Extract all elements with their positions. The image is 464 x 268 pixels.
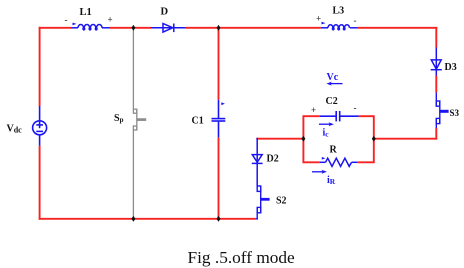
svg-text:iR: iR xyxy=(327,175,336,186)
svg-text:L1: L1 xyxy=(80,7,92,18)
svg-text:+: + xyxy=(311,105,316,115)
L1 current arrow xyxy=(73,23,77,26)
wire left rail upper xyxy=(39,27,41,106)
node junction top Sp xyxy=(131,25,135,31)
node junction bottom C1 xyxy=(217,216,221,222)
wire C1 column top red xyxy=(218,28,220,100)
transistor Sp xyxy=(133,109,146,130)
caption xyxy=(188,248,295,268)
wire top rail left segment xyxy=(39,27,71,29)
wire mid lead right (box to S3) xyxy=(374,138,437,140)
switch Sp gray line upper xyxy=(132,28,134,109)
R current arrow small xyxy=(322,157,326,160)
wire box bottom edge red parts xyxy=(303,161,320,163)
svg-text:ic: ic xyxy=(323,128,330,139)
svg-text:-: - xyxy=(354,16,357,26)
wire box right edge xyxy=(373,115,375,163)
svg-text:Vc: Vc xyxy=(327,72,339,83)
wire box left edge xyxy=(302,115,304,163)
node junction bottom Sp xyxy=(131,216,135,222)
ic arrow xyxy=(319,122,334,126)
wire right column top red xyxy=(435,27,437,48)
wire box top edge red parts xyxy=(303,115,319,117)
capacitor C2 xyxy=(320,111,359,121)
capacitor C1 xyxy=(212,100,226,138)
wire C1 column bottom red xyxy=(218,137,220,219)
svg-text:D2: D2 xyxy=(267,154,279,165)
svg-text:D3: D3 xyxy=(445,62,457,73)
iR arrow xyxy=(312,170,327,174)
svg-text:Vdc: Vdc xyxy=(7,124,23,135)
wire top rail between L1 and D xyxy=(110,27,151,29)
svg-text:S2: S2 xyxy=(276,196,287,207)
svg-text:S3: S3 xyxy=(450,108,460,118)
transistor S3 xyxy=(436,93,448,128)
wire right column red below S3 xyxy=(435,128,437,140)
C1 current arrow xyxy=(221,102,225,105)
svg-text:+: + xyxy=(108,15,113,25)
resistor R xyxy=(320,158,357,166)
svg-text:Sp: Sp xyxy=(114,113,124,124)
wire top rail between D and L3 xyxy=(186,27,321,29)
inductor L3 xyxy=(321,25,358,30)
svg-text:D: D xyxy=(161,7,169,18)
svg-text:-: - xyxy=(354,103,357,113)
svg-text:R: R xyxy=(330,145,338,156)
L3 current arrow xyxy=(322,22,326,25)
svg-text:-: - xyxy=(65,15,68,25)
inductor L1 xyxy=(71,24,110,29)
wire right column red between D3 and S3 xyxy=(435,76,437,93)
node junction top C1 xyxy=(217,25,221,31)
switch Sp gray line lower xyxy=(132,130,134,219)
svg-text:L3: L3 xyxy=(333,6,345,17)
node junction box left xyxy=(301,136,305,142)
wire mid lead left (D2 corner to box) xyxy=(256,138,303,140)
Vc arrow xyxy=(326,82,342,86)
svg-text:+: + xyxy=(316,14,321,24)
transistor S2 xyxy=(256,186,270,220)
diode D2 xyxy=(252,138,263,186)
diode D xyxy=(151,24,186,33)
wire bottom rail xyxy=(39,218,256,220)
source Vdc xyxy=(33,106,47,146)
wire top rail right of L3 xyxy=(358,27,438,29)
wire left rail lower xyxy=(39,146,41,220)
diode D3 xyxy=(431,48,442,76)
svg-text:C1: C1 xyxy=(192,116,204,127)
node junction box right xyxy=(372,136,376,142)
svg-text:C2: C2 xyxy=(326,96,338,107)
